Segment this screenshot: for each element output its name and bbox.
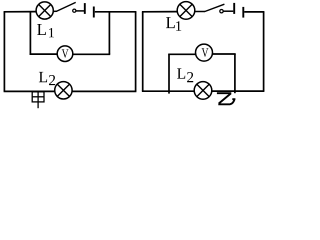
- battery plate +: [233, 3, 235, 14]
- wire top-left segment: [4, 11, 37, 13]
- wire bottom-left segment: [4, 90, 55, 92]
- wire bottom-right segment: [72, 90, 136, 92]
- wire voltmeter branch top-right horizontal: [212, 53, 236, 55]
- wire left wall: [142, 12, 144, 91]
- wire voltmeter branch left vertical: [29, 12, 31, 55]
- lamp L2: [55, 82, 72, 99]
- battery plate -: [242, 7, 244, 18]
- label L2: [177, 68, 185, 78]
- wire bottom-left segment: [142, 90, 195, 92]
- wire voltmeter branch right horizontal: [73, 53, 111, 55]
- label L2: [39, 72, 47, 82]
- wire voltmeter branch left vertical: [168, 54, 170, 93]
- voltmeter V1: [57, 46, 73, 62]
- wire battery to top-right corner: [95, 11, 137, 13]
- label L1: [166, 17, 175, 28]
- wire voltmeter branch right vertical: [108, 12, 110, 55]
- switch S1 lever: [57, 2, 76, 11]
- battery plate -: [93, 7, 95, 18]
- wire battery to top-right corner: [244, 11, 264, 13]
- wire lamp to switch: [195, 11, 205, 13]
- wire switch to battery: [223, 10, 233, 12]
- wire switch to battery: [76, 10, 84, 12]
- voltmeter V2: [196, 44, 213, 61]
- wire voltmeter branch left horizontal: [30, 53, 58, 55]
- label L1: [37, 24, 46, 35]
- wire right wall: [135, 12, 137, 92]
- wire lamp to switch: [53, 10, 57, 12]
- lamp L1: [36, 2, 53, 19]
- label L2 subscript (right): [187, 72, 193, 82]
- wire voltmeter branch right vertical: [234, 54, 236, 93]
- lamp L2: [194, 82, 212, 100]
- wire right wall: [263, 12, 265, 91]
- wire top-left segment: [142, 11, 178, 13]
- switch S2 contact: [220, 10, 223, 13]
- label jia (甲): [32, 92, 44, 108]
- label L1 subscript (right): [176, 21, 181, 31]
- lamp L1: [177, 2, 195, 20]
- switch S2 lever: [205, 4, 225, 11]
- switch S1 contact: [73, 9, 76, 12]
- label L1 subscript (left): [49, 28, 54, 37]
- battery plate +: [84, 3, 86, 14]
- wire bottom-right segment: [212, 90, 265, 92]
- label yi (乙): [217, 93, 236, 104]
- wire left wall: [3, 12, 5, 92]
- wire voltmeter branch top-left horizontal: [168, 53, 196, 55]
- label L2 subscript (left): [49, 75, 55, 85]
